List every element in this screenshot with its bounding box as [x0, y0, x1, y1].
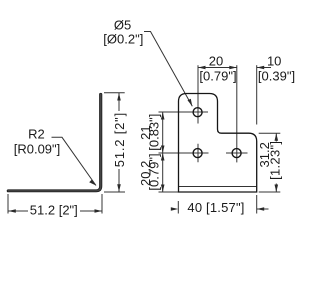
svg-text:[0.83"]: [0.83"] [147, 114, 162, 151]
svg-text:51.2 [2"]: 51.2 [2"] [30, 203, 78, 218]
svg-text:51.2 [2"]: 51.2 [2"] [112, 112, 127, 167]
svg-text:[Ø0.2"]: [Ø0.2"] [103, 32, 143, 47]
svg-text:[1.23"]: [1.23"] [267, 141, 282, 180]
svg-text:[R0.09"]: [R0.09"] [14, 141, 61, 156]
svg-text:40 [1.57"]: 40 [1.57"] [187, 200, 244, 215]
svg-text:[0.39"]: [0.39"] [258, 69, 295, 84]
svg-text:10: 10 [267, 53, 281, 68]
svg-text:R2: R2 [28, 126, 45, 141]
svg-text:[0.79"]: [0.79"] [199, 69, 236, 84]
svg-text:20: 20 [209, 53, 223, 68]
svg-text:[0.79"]: [0.79"] [147, 153, 162, 190]
svg-text:Ø5: Ø5 [114, 17, 131, 32]
